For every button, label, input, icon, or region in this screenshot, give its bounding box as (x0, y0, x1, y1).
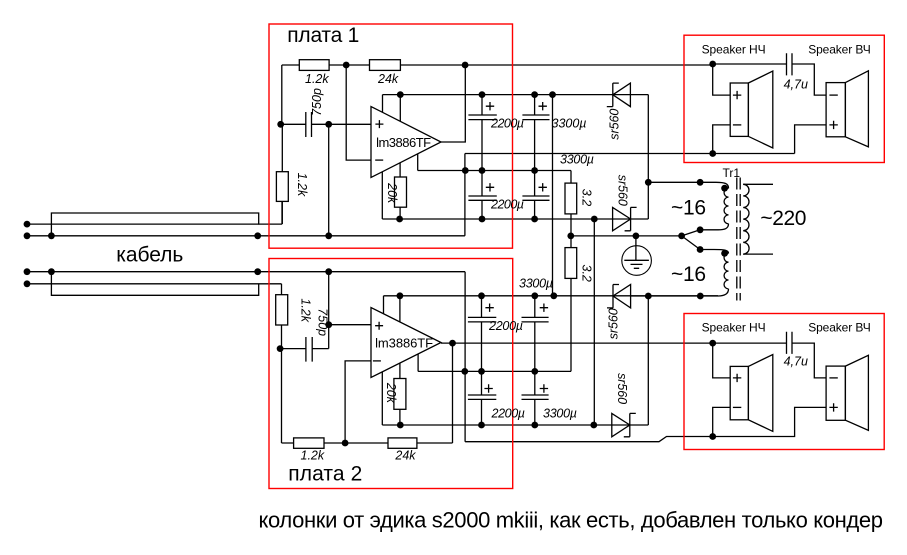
wire plate1 output to feedback node (441, 65, 465, 142)
node -V2 cap 3300u (531, 422, 538, 429)
node winding2 top (721, 250, 728, 257)
node gnd bus cap 3300u (531, 167, 538, 174)
svg-text:20k: 20k (385, 182, 399, 204)
wire plate2 +V rail y=295.8 (384, 295, 719, 297)
node AC2 diode junction (645, 293, 652, 300)
wire cable conductor B2 (ground 2) (27, 271, 465, 273)
node speaker2 return (709, 433, 716, 440)
capacitor 2200u lower-top plates (468, 317, 496, 322)
svg-text:Speaker НЧ: Speaker НЧ (702, 43, 766, 57)
plus sign speaker LF2 (733, 374, 741, 382)
node 750p left (plate1) (277, 121, 284, 128)
wire cable conductor A2 (input signal 2) (27, 283, 282, 285)
node +V2 cap 3300u (531, 292, 538, 299)
wire D1 to junction (647, 95, 649, 183)
node center tap fork (678, 233, 685, 240)
node +V link (549, 91, 556, 98)
capacitor 3300u lower-top plates (522, 317, 549, 322)
wire cable pair2 outline (51, 272, 258, 296)
resistor 1.2k horizontal (plate1) (299, 60, 329, 71)
plus sign cap 2200u lower-top (485, 304, 493, 312)
node gnd/input shunt junction (plate2) (325, 268, 332, 275)
wire D2 to junction (647, 182, 649, 219)
node cable1 shield left (48, 232, 55, 239)
capacitor 4,7u plates (speaker1) (787, 53, 793, 75)
wire speaker1 HF plus drop (795, 125, 827, 154)
transformer Tr1 primary winding 2 (724, 253, 728, 289)
plus sign cap 3300u upper-bottom (539, 183, 547, 191)
plus sign speaker HF2 (829, 403, 837, 411)
node cable1 shield right (254, 232, 261, 239)
diode D3 sr560 (bar left) (607, 285, 619, 308)
capacitor 2200u upper-top plates (468, 115, 496, 120)
wire plate2 V- tap (381, 372, 383, 425)
node speaker1 return (709, 150, 716, 157)
wire A1 riser to R 1.2k vertical (281, 201, 283, 224)
svg-text:Speaker НЧ: Speaker НЧ (702, 321, 766, 335)
node output/feedback (plate1) (462, 62, 469, 69)
speaker box 1 outline (684, 35, 884, 162)
wire -V link vertical x=594.3 (593, 219, 595, 425)
capacitor 3300u lower-bottom plates (522, 395, 549, 399)
wire plate2 R1.2k vertical leads (281, 325, 283, 443)
svg-text:кабель: кабель (116, 244, 183, 267)
svg-text:Speaker ВЧ: Speaker ВЧ (808, 43, 871, 57)
svg-text:4,7u: 4,7u (784, 354, 808, 368)
wire speaker2 LF return drop (713, 407, 731, 436)
svg-text:колонки от эдика s2000 mkiii,: колонки от эдика s2000 mkiii, как есть, … (259, 508, 884, 533)
wire plate1 R1.2k vertical leads (281, 124, 283, 224)
wire center-tap fork (682, 230, 701, 250)
node output/feedback (plate2) (449, 340, 456, 347)
svg-text:1.2k: 1.2k (295, 173, 309, 197)
node +V2 cap 2200u (478, 292, 485, 299)
minus sign speaker HF1 (829, 94, 837, 96)
node -V cap 2200u (479, 216, 486, 223)
svg-text:~220: ~220 (760, 207, 806, 230)
node gnd rail 3.2 junction (567, 233, 574, 240)
node cable2 shield right (254, 268, 261, 275)
svg-text:1.2k: 1.2k (298, 298, 312, 322)
svg-text:3300µ: 3300µ (552, 117, 587, 131)
svg-text:Speaker ВЧ: Speaker ВЧ (808, 321, 871, 335)
svg-text:2200µ: 2200µ (490, 117, 524, 131)
node -V 20k (396, 216, 403, 223)
svg-text:24k: 24k (394, 448, 416, 462)
svg-text:2200µ: 2200µ (491, 407, 526, 421)
wire speaker2 return with jog (465, 407, 826, 441)
wire A2 riser to R 1.2k vertical (plate2) (281, 284, 283, 295)
node feedback junction (plate2) (342, 440, 349, 447)
wire winding2 top entry (700, 250, 728, 254)
minus sign op-amp U1 (375, 159, 383, 161)
speaker HF2 cone (845, 355, 868, 430)
node input terminal 2+ (24, 268, 31, 275)
plus sign cap 3300u lower-top (540, 304, 548, 312)
wire earth symbol stem (635, 236, 637, 260)
node gnd rail earth junction (633, 233, 640, 240)
node input terminal 2- (24, 280, 31, 287)
node input terminal 1- (24, 232, 31, 239)
speaker HF2 driver body (826, 366, 845, 420)
node cable2 shield left (48, 268, 55, 275)
minus sign speaker HF2 (829, 377, 837, 379)
node +V cap 3300u (531, 91, 538, 98)
wire speaker2 hot drop (713, 343, 731, 378)
svg-text:плата 1: плата 1 (287, 24, 359, 47)
wire plate1 V+ taps (383, 95, 401, 122)
plus sign cap 3300u upper-top (539, 102, 547, 110)
node -V2 cap 2200u (478, 422, 485, 429)
speaker LF2 cone (748, 355, 772, 432)
node +V2 link (550, 292, 557, 299)
wire secondary bottom stub (743, 253, 773, 255)
wire plate2 cap column 2200u leads (481, 296, 483, 425)
resistor 3.2 upper (565, 183, 577, 214)
wire long +V vertical x=552.5 (552, 95, 554, 296)
node AC2 terminal (697, 293, 704, 300)
node winding1 bottom terminal (697, 226, 704, 233)
wire plate2 feedback vertical (452, 343, 454, 443)
diode D4 sr560 (bar right) (624, 413, 636, 436)
wire secondary top stub (743, 183, 773, 185)
node speaker2 hot (709, 340, 716, 347)
speaker box 2 outline (684, 314, 884, 450)
svg-text:3.2: 3.2 (579, 189, 593, 206)
wire speaker1 hot drop (713, 64, 731, 95)
svg-text:плата 2: плата 2 (288, 463, 362, 486)
wire speaker1 LF return drop (713, 125, 731, 154)
resistor 20k (plate2) (394, 379, 406, 410)
resistor 20k (plate1) (395, 177, 407, 207)
node speaker1 hot (709, 61, 716, 68)
svg-text:3.2: 3.2 (579, 265, 593, 282)
svg-text:24k: 24k (377, 72, 399, 86)
wire D3 right to vertical (647, 296, 649, 425)
node 750p right / +input (plate1) (325, 121, 332, 128)
wire plate2 cap column 3300u leads (534, 296, 536, 425)
svg-text:sr560: sr560 (615, 175, 629, 206)
resistor 24k horizontal (plate2) (388, 438, 417, 448)
capacitor 2200u lower-bottom plates (468, 395, 496, 399)
board outline плата 1 (269, 24, 513, 248)
svg-text:lm3886TF: lm3886TF (376, 135, 431, 150)
svg-text:sr560: sr560 (607, 308, 621, 339)
capacitor 3300u upper-bottom plates (522, 196, 549, 200)
node +input tap (plate2) (325, 321, 332, 328)
node AC1 diode junction (645, 179, 652, 186)
svg-text:1.2k: 1.2k (305, 72, 329, 86)
speaker LF1 cone (748, 71, 772, 148)
svg-text:sr560: sr560 (607, 109, 621, 140)
speaker HF1 cone (845, 71, 868, 147)
svg-text:3300µ: 3300µ (519, 277, 553, 291)
plus sign cap 2200u upper-top (486, 102, 494, 110)
speaker HF1 driver body (826, 83, 845, 137)
wire plate2 20k leads (399, 363, 401, 425)
wire cap column 2200u upper leads (481, 95, 483, 219)
node 750p left (plate2) (277, 345, 284, 352)
wire 3.2 lower leads (570, 236, 572, 372)
board outline плата 2 (269, 259, 513, 489)
ground earth bars (624, 260, 649, 268)
wire speaker1 return rail y=153.5 (465, 153, 795, 155)
node gnd bus left (plate1) (462, 167, 469, 174)
node -V2 link (590, 422, 597, 429)
plus sign cap 2200u upper-bottom (486, 183, 494, 191)
op-amp U1 lm3886TF (plate1) (371, 107, 441, 178)
svg-text:3300µ: 3300µ (560, 153, 594, 167)
diode D2 sr560 (bar right) (625, 207, 637, 230)
plus sign cap 3300u lower-bottom (540, 384, 548, 392)
op-amp U2 lm3886TF (plate2) (371, 308, 441, 378)
wire ground vertical x=465 (464, 154, 466, 236)
svg-text:750p: 750p (316, 308, 330, 336)
node AC1 terminal (697, 179, 704, 186)
ground earth symbol circle (622, 246, 652, 276)
wire cable conductor B1 (ground 1) (27, 235, 465, 237)
wire plate2 minus input (345, 361, 371, 443)
wire plate1 input row y=124.3 (282, 123, 371, 125)
wire plate1 V- tap (381, 172, 383, 219)
plus sign speaker HF1 (829, 121, 837, 129)
resistor 3.2 lower (565, 248, 577, 279)
wire plate2 V+ taps (384, 296, 400, 322)
wire GND mid rail y=235.9 (571, 235, 682, 237)
wire plate2 plus input row (329, 324, 371, 326)
capacitor 2200u upper-bottom plates (468, 196, 496, 200)
transformer Tr1 secondary winding (743, 184, 749, 254)
svg-text:2200µ: 2200µ (488, 319, 523, 333)
svg-text:2200µ: 2200µ (490, 198, 524, 212)
wire speaker2 HF cap wires (713, 343, 826, 378)
wire plate1 input shunt vertical x=328.7 (328, 124, 330, 236)
wire 3.2 upper leads (570, 171, 572, 236)
transformer Tr1 primary winding 1 (724, 188, 728, 224)
svg-text:sr560: sr560 (615, 373, 629, 404)
wire plate1 gnd pin tap (417, 154, 419, 171)
wire AC1 rail y=182.3 (648, 182, 728, 188)
resistor 1.2k horizontal (plate2) (294, 438, 324, 448)
plus sign op-amp U1 (375, 120, 383, 128)
node gnd bus2 cap 3300u (531, 368, 538, 375)
wire plate2 gnd pin tap (417, 354, 419, 372)
wire plate2 gnd bus y=371.4 (418, 370, 571, 372)
wire cable pair1 outline (51, 213, 258, 236)
plus sign op-amp U2 (375, 322, 383, 330)
svg-text:3300µ: 3300µ (543, 407, 577, 421)
wire plate2 output rail y=343.1 (441, 342, 713, 344)
svg-text:~16: ~16 (671, 196, 706, 219)
node V+ pin (plate2) (397, 292, 404, 299)
capacitor 3300u upper-top plates (522, 115, 549, 120)
node gnd/input shunt junction (plate1) (325, 232, 332, 239)
wire plate2 -V rail y=424 (382, 424, 648, 426)
wire plate1 output/feedback rail y=65 (282, 64, 713, 66)
wire plate1 20k bottom lead (399, 207, 401, 219)
svg-text:Tr1: Tr1 (723, 166, 741, 180)
plus sign speaker LF1 (733, 91, 741, 99)
wire plate1 gnd bus y=170.5 (418, 170, 571, 172)
node winding1 top (721, 185, 728, 192)
speaker LF2 driver body (730, 366, 748, 419)
wire plate1 feedback to minus input (346, 65, 371, 160)
wire cable conductor A1 (input signal 1) (27, 223, 282, 225)
node gnd bus2 cap 2200u (478, 368, 485, 375)
wire plate1 V- rail y=219 (382, 218, 648, 220)
minus sign speaker LF2 (733, 406, 741, 408)
node winding2 top terminal (697, 246, 704, 253)
capacitor 750p plates (plate1) (306, 112, 312, 137)
svg-text:20k: 20k (384, 382, 398, 404)
capacitor 750p plates (plate2) (306, 337, 312, 362)
svg-text:~16: ~16 (671, 263, 706, 286)
capacitor 4,7u plates (speaker2) (787, 332, 793, 354)
wire plate1 mute 20k top lead (399, 163, 401, 177)
diode D1 sr560 (bar left) (607, 83, 619, 107)
plus sign cap 2200u lower-bottom (484, 384, 492, 392)
node -V2 20k (397, 422, 404, 429)
resistor 24k horizontal (plate1) (370, 60, 401, 71)
speaker LF1 driver body (730, 83, 748, 136)
minus sign speaker LF1 (733, 124, 741, 126)
wire ground vertical x=465 (lower) (464, 272, 466, 442)
svg-text:lm3886TF: lm3886TF (375, 336, 433, 351)
node gnd bus left (plate2) (461, 368, 468, 375)
wire plate2 750p row (280, 348, 329, 350)
wire winding2 bottom exit to rail (631, 289, 729, 296)
wire cap column 3300u upper leads (534, 95, 536, 219)
node V+ pin (plate1) (397, 91, 404, 98)
wire plate1 V+ rail y=94.6 (383, 94, 649, 96)
wire plate2 feedback rail y=442.5 (282, 442, 453, 444)
wire plate1 left riser x=282 (281, 65, 283, 124)
wire speaker1 HF cap wires (713, 64, 826, 95)
wire winding1 bottom exit (700, 224, 728, 230)
node +V cap 2200u (479, 91, 486, 98)
node -V cap 3300u (531, 216, 538, 223)
resistor 1.2k vertical (plate1) (276, 172, 288, 202)
svg-text:1.2k: 1.2k (301, 448, 325, 462)
resistor 1.2k vertical (plate2) (276, 295, 288, 325)
transformer Tr1 core (737, 178, 740, 301)
wire plate2 input vertical x=328.7 (328, 272, 330, 349)
svg-text:4,7u: 4,7u (784, 77, 808, 91)
node feedback junction (plate1) (343, 62, 350, 69)
node -V link (591, 216, 598, 223)
svg-text:750p: 750p (310, 88, 324, 116)
node gnd bus cap 2200u (479, 167, 486, 174)
node input terminal 1+ (24, 221, 31, 228)
minus sign op-amp U2 (373, 360, 381, 362)
